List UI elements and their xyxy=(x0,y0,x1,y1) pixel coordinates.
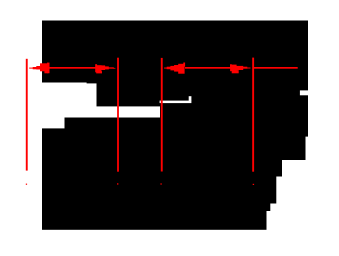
dimension B right arrow top spike xyxy=(230,64,232,68)
centerline 2 dot xyxy=(117,183,118,184)
dimension B left arrow tip xyxy=(164,68,167,69)
dimension A line xyxy=(47,67,97,69)
centerline 4 xyxy=(252,58,254,172)
dimension A left arrow foot xyxy=(44,71,48,74)
black region: mid block xyxy=(65,118,309,129)
black region: upper-mid block xyxy=(97,83,309,107)
dimension A right arrow thin xyxy=(108,67,114,68)
dimension B right arrow step3 xyxy=(243,67,248,69)
dimension A left arrow step2 xyxy=(33,67,37,69)
dimension A right arrow tip xyxy=(113,67,115,70)
white slot tick xyxy=(189,96,192,101)
dimension B tail line xyxy=(253,67,298,69)
dimension B right arrow foot xyxy=(232,70,239,73)
dimension A left arrow step5 xyxy=(47,63,50,74)
black region: lower block row 1 xyxy=(42,128,308,136)
white slot bar xyxy=(160,101,192,104)
dimension B left arrow step4 xyxy=(174,65,179,72)
dimension A right arrow large step xyxy=(95,64,97,72)
dimension A left arrow step4 xyxy=(40,63,48,71)
centerline 4 dot xyxy=(253,184,254,185)
black region: right part of band row xyxy=(160,106,308,118)
centerline 1 xyxy=(26,59,28,171)
dimension A left arrow tip xyxy=(29,68,33,69)
black region: lower block row 5 xyxy=(42,203,270,211)
centerline 1 dot xyxy=(26,184,27,185)
dimension A right arrow big block xyxy=(96,65,102,71)
centerline 3 dot xyxy=(160,183,161,184)
dimension B left arrow top spike xyxy=(183,63,185,67)
black region: lower block row 4 xyxy=(42,176,276,204)
dimension B left arrow step2 xyxy=(167,67,171,70)
dimension A right arrow foot xyxy=(96,71,102,73)
dimension B right arrow tip xyxy=(247,68,251,69)
black region: lower block row 6 xyxy=(42,211,267,230)
dimension B left arrow big block xyxy=(178,64,184,74)
white notch in right edge xyxy=(300,90,309,95)
black region: lower block row 2 xyxy=(42,136,306,160)
black region: lower block row 3 xyxy=(42,160,282,177)
black region: top band xyxy=(42,21,308,83)
dimension A right arrow mid step xyxy=(101,65,105,70)
dimension B left arrow step3 xyxy=(170,66,174,71)
dimension B line xyxy=(185,67,232,69)
dimension A right arrow step2 xyxy=(105,66,109,69)
centerline 2 xyxy=(117,58,119,172)
dimension A left arrow step3 xyxy=(36,66,40,70)
centerline 3 xyxy=(161,58,163,172)
black region: thin step under top band xyxy=(87,82,308,83)
dimension B right arrow step4 xyxy=(236,66,243,70)
dimension B right arrow big block xyxy=(230,65,237,72)
